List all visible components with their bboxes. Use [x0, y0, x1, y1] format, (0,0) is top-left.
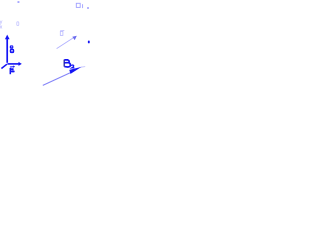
svg-text:x: x: [0, 24, 3, 30]
